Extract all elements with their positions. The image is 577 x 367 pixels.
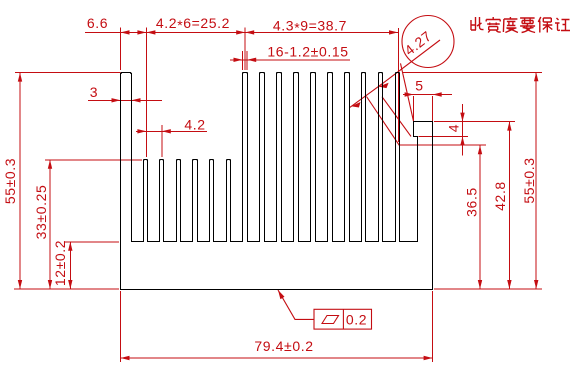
svg-text:55±0.3: 55±0.3 xyxy=(2,158,18,204)
svg-text:33±0.25: 33±0.25 xyxy=(33,185,49,240)
svg-text:12±0.2: 12±0.2 xyxy=(52,240,68,286)
svg-text:3: 3 xyxy=(90,84,98,100)
svg-text:55±0.3: 55±0.3 xyxy=(521,157,537,203)
svg-text:79.4±0.2: 79.4±0.2 xyxy=(254,338,313,354)
svg-text:6.6: 6.6 xyxy=(87,15,108,31)
svg-text:16-1.2±0.15: 16-1.2±0.15 xyxy=(267,44,348,60)
svg-text:4.3*9=38.7: 4.3*9=38.7 xyxy=(273,18,347,36)
svg-text:4: 4 xyxy=(446,124,462,132)
svg-text:0.2: 0.2 xyxy=(346,312,367,328)
svg-text:42.8: 42.8 xyxy=(492,181,508,211)
svg-text:4.2*6=25.2: 4.2*6=25.2 xyxy=(156,15,230,33)
svg-text:36.5: 36.5 xyxy=(464,187,480,217)
svg-text:5: 5 xyxy=(415,78,423,94)
svg-text:4.2: 4.2 xyxy=(184,117,205,133)
